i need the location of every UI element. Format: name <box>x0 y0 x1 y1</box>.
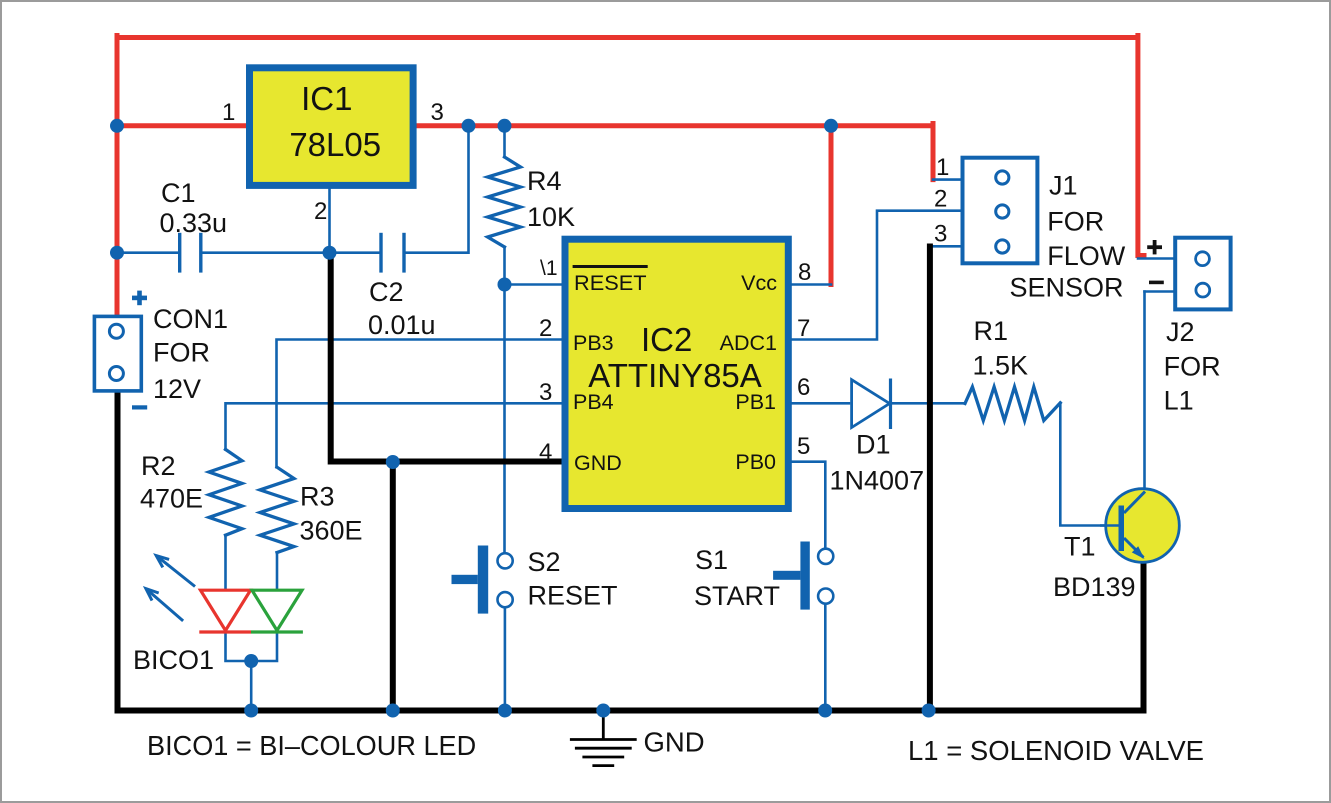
svg-text:12V: 12V <box>153 374 201 404</box>
svg-text:R2: R2 <box>141 451 176 481</box>
svg-text:R3: R3 <box>300 482 335 512</box>
svg-text:START: START <box>694 581 780 611</box>
svg-text:PB1: PB1 <box>735 390 776 414</box>
svg-text:0.01u: 0.01u <box>368 310 436 340</box>
svg-text:PB4: PB4 <box>573 390 614 414</box>
svg-text:IC2: IC2 <box>641 321 692 358</box>
svg-text:PB0: PB0 <box>735 450 776 474</box>
svg-text:T1: T1 <box>1064 532 1096 562</box>
svg-text:0.33u: 0.33u <box>160 208 228 238</box>
svg-text:4: 4 <box>539 439 552 466</box>
svg-text:5: 5 <box>797 433 810 460</box>
svg-text:FOR: FOR <box>1047 206 1104 236</box>
svg-text:R4: R4 <box>527 166 562 196</box>
svg-text:2: 2 <box>314 198 327 225</box>
svg-text:ADC1: ADC1 <box>720 331 777 355</box>
svg-text:78L05: 78L05 <box>289 126 381 163</box>
svg-text:FLOW: FLOW <box>1047 241 1126 271</box>
svg-text:BICO1: BICO1 <box>133 645 214 675</box>
svg-text:1: 1 <box>222 99 235 126</box>
svg-text:GND: GND <box>574 451 622 475</box>
svg-text:2: 2 <box>934 186 947 213</box>
svg-text:2: 2 <box>539 315 552 342</box>
svg-text:8: 8 <box>798 259 811 286</box>
svg-text:3: 3 <box>934 221 947 248</box>
svg-text:L1 = SOLENOID VALVE: L1 = SOLENOID VALVE <box>908 735 1204 766</box>
svg-text:SENSOR: SENSOR <box>1010 273 1124 303</box>
svg-text:470E: 470E <box>140 484 203 514</box>
svg-text:RESET: RESET <box>528 581 618 611</box>
svg-text:360E: 360E <box>300 516 363 546</box>
svg-text:10K: 10K <box>527 202 575 232</box>
svg-text:RESET: RESET <box>574 271 647 295</box>
svg-text:PB3: PB3 <box>573 331 614 355</box>
svg-text:S1: S1 <box>695 545 728 575</box>
svg-text:3: 3 <box>539 379 552 406</box>
svg-text:IC1: IC1 <box>301 80 352 117</box>
svg-text:1N4007: 1N4007 <box>830 466 925 496</box>
svg-text:D1: D1 <box>856 430 891 460</box>
svg-text:CON1: CON1 <box>153 304 228 334</box>
svg-text:7: 7 <box>797 315 810 342</box>
svg-text:3: 3 <box>431 99 444 126</box>
svg-text:1.5K: 1.5K <box>973 351 1029 381</box>
svg-text:Vcc: Vcc <box>741 271 777 295</box>
svg-text:ATTINY85A: ATTINY85A <box>588 357 762 394</box>
svg-text:6: 6 <box>797 374 810 401</box>
svg-text:S2: S2 <box>528 547 561 577</box>
svg-text:R1: R1 <box>974 316 1009 346</box>
svg-text:FOR: FOR <box>153 338 210 368</box>
svg-text:1: 1 <box>936 154 949 181</box>
svg-text:FOR: FOR <box>1164 351 1221 381</box>
svg-text:BICO1 = BI–COLOUR LED: BICO1 = BI–COLOUR LED <box>147 730 476 761</box>
svg-text:GND: GND <box>644 727 705 758</box>
svg-text:\1: \1 <box>540 257 558 280</box>
svg-text:J1: J1 <box>1049 171 1078 201</box>
svg-text:C2: C2 <box>369 277 404 307</box>
svg-text:J2: J2 <box>1166 317 1195 347</box>
svg-text:BD139: BD139 <box>1053 572 1136 602</box>
svg-text:L1: L1 <box>1164 386 1194 416</box>
svg-text:C1: C1 <box>161 178 196 208</box>
